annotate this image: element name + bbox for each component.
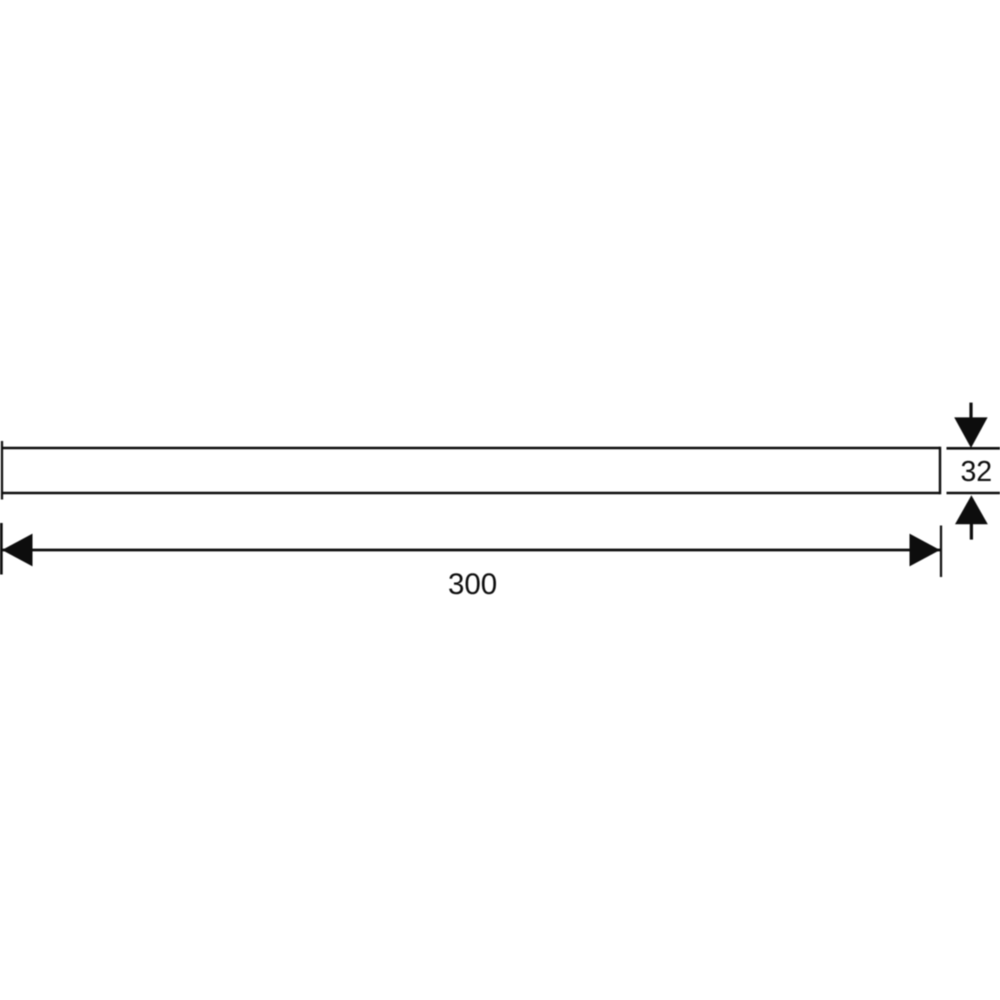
arrowhead left (2, 534, 33, 567)
svg-text:300: 300 (448, 568, 497, 601)
dimension line 300 (2, 549, 940, 552)
arrowhead up (955, 495, 988, 524)
bar left edge (1, 441, 3, 500)
extension line 32 top (947, 447, 1000, 450)
bar top edge (2, 447, 940, 450)
arrow tail bottom (970, 522, 973, 540)
arrow tail top (969, 403, 972, 420)
extension line right (940, 526, 942, 578)
svg-text:32: 32 (960, 456, 992, 488)
arrowhead down (954, 417, 987, 448)
bar right edge (939, 447, 941, 495)
bar bottom edge (2, 492, 940, 495)
arrowhead right (910, 534, 941, 567)
extension line left (0, 523, 3, 575)
extension line 32 bottom (947, 492, 1000, 495)
